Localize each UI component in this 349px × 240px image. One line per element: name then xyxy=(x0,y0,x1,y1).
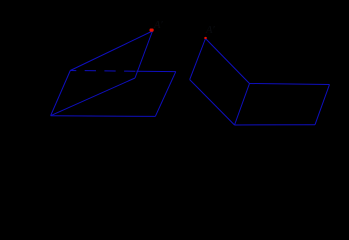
left figure: plane top edge visible part crossing to TR (solid) xyxy=(137,70,176,72)
left figure: plane right edge C(BR) to TR xyxy=(155,72,176,117)
svg-text:A′: A′ xyxy=(153,20,163,31)
right figure: folded panel edge L to B xyxy=(190,80,235,125)
left figure: folded edge A' to E(V) xyxy=(135,31,153,78)
right figure: red point marker at A' xyxy=(204,37,207,39)
left figure: red point marker at A' xyxy=(150,29,154,32)
right figure: crease edge B to M xyxy=(235,84,250,126)
left figure: segment B(BL) to E(V) xyxy=(51,78,135,116)
left figure: plane bottom edge B(BL) to C(BR) xyxy=(51,115,156,118)
right figure: folded panel edge A' (T) to L xyxy=(190,39,206,80)
right figure: folded panel edge M to A' (T) xyxy=(206,39,250,84)
right figure: flat panel top edge M to TR2 xyxy=(250,84,330,85)
right figure: flat panel bottom edge BR2 to B xyxy=(235,124,316,126)
left figure: plane top edge hidden part D(TL) to crossing (dashed) xyxy=(70,70,136,73)
left figure: folded edge A' to D(TL) xyxy=(70,31,152,71)
svg-text:A′: A′ xyxy=(205,25,215,36)
right figure: flat panel right edge TR2 to BR2 xyxy=(315,85,330,125)
left figure: plane edge D(TL) to B(BL) xyxy=(51,71,71,116)
